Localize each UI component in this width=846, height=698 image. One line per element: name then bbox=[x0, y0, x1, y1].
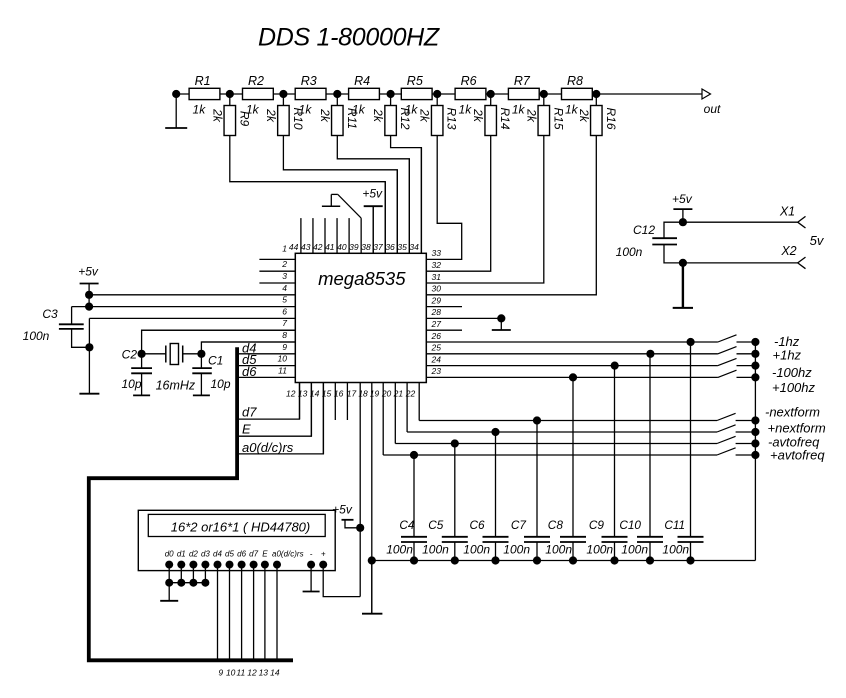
svg-text:6: 6 bbox=[282, 306, 287, 316]
ground LCD minus bbox=[303, 565, 320, 592]
svg-text:X1: X1 bbox=[779, 205, 795, 219]
pin 39 stub bbox=[349, 218, 361, 253]
svg-text:38: 38 bbox=[361, 242, 371, 252]
LCD pin E bbox=[261, 550, 269, 569]
junction -nextform cap drop bbox=[533, 416, 541, 424]
wire ladder rail bbox=[176, 93, 596, 95]
svg-text:33: 33 bbox=[432, 248, 442, 258]
switch -nextform bbox=[717, 405, 820, 425]
power +5v X connector bbox=[672, 192, 693, 222]
svg-text:+5v: +5v bbox=[78, 265, 99, 279]
svg-text:22: 22 bbox=[405, 389, 416, 399]
pin 18 stub bbox=[358, 383, 371, 614]
svg-text:12: 12 bbox=[286, 389, 296, 399]
pin 19 stub bbox=[370, 383, 383, 456]
svg-text:100n: 100n bbox=[616, 245, 643, 259]
svg-text:12: 12 bbox=[247, 668, 257, 678]
wire pin7 to C2 bbox=[142, 330, 296, 354]
svg-text:+avtofreq: +avtofreq bbox=[770, 448, 825, 463]
svg-text:+nextform: +nextform bbox=[768, 421, 826, 436]
junction X1 node bbox=[679, 218, 687, 226]
svg-text:2k: 2k bbox=[577, 108, 591, 123]
svg-text:9: 9 bbox=[282, 342, 287, 352]
svg-text:C12: C12 bbox=[633, 223, 655, 237]
resistor R12 2k bbox=[371, 94, 412, 136]
svg-text:18: 18 bbox=[358, 389, 368, 399]
svg-text:100n: 100n bbox=[621, 542, 648, 556]
pin 30 wire bbox=[432, 284, 442, 294]
switch -100hz bbox=[718, 358, 812, 380]
pin 3 wire bbox=[259, 271, 295, 283]
wire out line bbox=[596, 93, 702, 95]
pin 21 stub bbox=[393, 383, 407, 433]
svg-text:R15: R15 bbox=[551, 107, 565, 129]
svg-text:16mHz: 16mHz bbox=[156, 379, 196, 393]
ground pin28 bbox=[492, 318, 511, 330]
svg-text:26: 26 bbox=[431, 331, 442, 341]
pin 1 wire bbox=[259, 243, 295, 259]
svg-text:a0(d/c)rs: a0(d/c)rs bbox=[242, 440, 294, 455]
svg-text:C3: C3 bbox=[42, 307, 58, 321]
pin 5 wire bbox=[72, 295, 296, 307]
capacitor C12 100n bbox=[616, 222, 683, 263]
svg-text:35: 35 bbox=[397, 242, 407, 252]
wire pin8 to C1 bbox=[201, 342, 295, 354]
svg-text:29: 29 bbox=[431, 295, 442, 305]
junction ladder node 3 bbox=[333, 90, 341, 98]
pin 37 stub bbox=[373, 182, 385, 254]
pin 43 stub bbox=[301, 218, 313, 253]
capacitor C4 100n bbox=[386, 455, 427, 561]
svg-text:2k: 2k bbox=[418, 108, 432, 123]
junction C6 ground bus bbox=[491, 556, 499, 564]
resistor R7 1k bbox=[508, 74, 539, 117]
svg-text:d4: d4 bbox=[213, 550, 222, 559]
junction C3 ground node bbox=[85, 343, 93, 351]
pin 44 stub bbox=[289, 218, 301, 253]
LCD pin d5 bbox=[225, 550, 234, 569]
svg-text:d2: d2 bbox=[189, 550, 198, 559]
svg-text:1k: 1k bbox=[512, 103, 526, 117]
crystal Y1 16mHz bbox=[142, 344, 202, 393]
svg-text:100n: 100n bbox=[586, 542, 613, 556]
pin 23 wire bbox=[426, 366, 718, 377]
junction +1hz cap drop bbox=[646, 350, 654, 358]
svg-text:1k: 1k bbox=[565, 103, 579, 117]
junction ground bus left bbox=[368, 556, 376, 564]
svg-text:d6: d6 bbox=[237, 550, 246, 559]
pin 22 stub bbox=[405, 383, 419, 421]
svg-text:C11: C11 bbox=[664, 518, 685, 532]
resistor R13 2k bbox=[418, 94, 459, 136]
junction -1hz cap drop bbox=[687, 338, 695, 346]
junction node C2 bbox=[122, 348, 146, 362]
junction C4 ground bus bbox=[410, 556, 418, 564]
svg-text:+5v: +5v bbox=[672, 192, 693, 206]
LCD pin d7 bbox=[249, 550, 258, 569]
LCD module HD44780 box bbox=[138, 510, 335, 570]
wire R11 to pin35 bbox=[337, 136, 409, 254]
svg-text:31: 31 bbox=[432, 272, 442, 282]
wire X2 bbox=[683, 244, 806, 269]
svg-text:a0(d/c)rs: a0(d/c)rs bbox=[272, 550, 304, 559]
title text DDS 1-80000HZ bbox=[258, 24, 440, 52]
pin 10 wire bbox=[237, 354, 295, 366]
svg-text:11: 11 bbox=[236, 668, 245, 678]
pin 2 wire bbox=[259, 259, 295, 271]
resistor R15 2k bbox=[524, 94, 565, 136]
svg-text:E: E bbox=[262, 550, 268, 559]
LCD pin - bbox=[307, 550, 315, 569]
svg-text:100n: 100n bbox=[386, 542, 413, 556]
wire R14 to pin32 bbox=[426, 136, 490, 272]
power +5v LCD bbox=[332, 503, 360, 528]
svg-text:100n: 100n bbox=[545, 542, 572, 556]
junction ladder node 7 bbox=[540, 90, 548, 98]
svg-text:39: 39 bbox=[349, 242, 359, 252]
pin 4 wire bbox=[89, 283, 295, 295]
svg-text:32: 32 bbox=[432, 260, 442, 270]
wire E pin13 bbox=[237, 383, 311, 437]
junction ladder node 4 bbox=[387, 90, 395, 98]
svg-text:100n: 100n bbox=[503, 542, 530, 556]
svg-text:C10: C10 bbox=[619, 518, 641, 532]
wire R12 to pin34 bbox=[391, 136, 422, 254]
svg-text:d5: d5 bbox=[225, 550, 234, 559]
svg-text:R4: R4 bbox=[354, 74, 370, 88]
svg-text:19: 19 bbox=[370, 389, 380, 399]
wire X1 bbox=[683, 205, 806, 229]
wire thick LCD bus bbox=[89, 347, 293, 660]
resistor R9 2k bbox=[210, 94, 251, 136]
svg-text:-nextform: -nextform bbox=[765, 405, 820, 420]
pin 32 wire bbox=[432, 260, 442, 270]
svg-text:1k: 1k bbox=[193, 103, 207, 117]
svg-text:20: 20 bbox=[381, 389, 392, 399]
ground pin6 bbox=[79, 318, 99, 393]
svg-text:5v: 5v bbox=[810, 233, 825, 248]
svg-text:30: 30 bbox=[432, 284, 442, 294]
svg-text:10: 10 bbox=[278, 354, 288, 364]
junction ladder node 0 bbox=[172, 90, 180, 98]
wire pin21 +nextform bbox=[407, 431, 717, 433]
ground X2 bbox=[673, 263, 693, 308]
capacitor C7 100n bbox=[503, 421, 550, 561]
svg-text:C6: C6 bbox=[470, 518, 486, 532]
wire R9 to pin37 bbox=[230, 136, 385, 254]
wire LCD a0(d/c)rs to bus bbox=[270, 565, 280, 678]
svg-text:R13: R13 bbox=[445, 107, 459, 129]
wire a0(d/c)rs pin14 bbox=[237, 383, 323, 456]
LCD pin d6 bbox=[237, 550, 246, 569]
resistor R2 1k bbox=[243, 74, 274, 117]
svg-text:100n: 100n bbox=[23, 329, 50, 343]
svg-text:R1: R1 bbox=[195, 74, 211, 88]
wire pin19 +avtofreq bbox=[383, 454, 717, 456]
svg-text:X2: X2 bbox=[780, 244, 796, 258]
resistor R11 2k bbox=[318, 94, 359, 136]
switch -1hz bbox=[718, 334, 800, 349]
junction ladder node 5 bbox=[433, 90, 441, 98]
svg-text:C2: C2 bbox=[122, 348, 138, 362]
pin 15 stub bbox=[322, 383, 335, 421]
svg-text:16: 16 bbox=[334, 389, 344, 399]
svg-text:R11: R11 bbox=[345, 108, 359, 129]
svg-text:d0: d0 bbox=[165, 550, 174, 559]
svg-text:d3: d3 bbox=[201, 550, 210, 559]
node d5 label bbox=[242, 352, 257, 367]
junction pin4 +5v bbox=[85, 291, 93, 299]
junction C11 ground bus bbox=[686, 556, 694, 564]
wire LCD E to bus bbox=[259, 565, 269, 678]
svg-text:44: 44 bbox=[289, 242, 299, 252]
svg-text:d1: d1 bbox=[177, 550, 186, 559]
svg-text:d7: d7 bbox=[242, 405, 257, 420]
LCD pin d3 bbox=[201, 550, 210, 569]
svg-text:C1: C1 bbox=[208, 354, 223, 368]
svg-text:16*2 or16*1 ( HD44780): 16*2 or16*1 ( HD44780) bbox=[171, 520, 310, 535]
junction +avtofreq cap drop bbox=[410, 451, 418, 459]
svg-text:9: 9 bbox=[218, 668, 223, 678]
svg-text:C4: C4 bbox=[399, 518, 415, 532]
junction +nextform cap drop bbox=[491, 428, 499, 436]
svg-text:C5: C5 bbox=[428, 518, 444, 532]
svg-text:100n: 100n bbox=[662, 542, 689, 556]
junction C10 ground bus bbox=[646, 556, 654, 564]
pin 34 stub bbox=[409, 148, 421, 254]
node 5v label bbox=[810, 233, 825, 248]
switch +100hz bbox=[718, 370, 816, 395]
svg-text:100n: 100n bbox=[422, 542, 449, 556]
svg-text:2k: 2k bbox=[371, 108, 385, 123]
resistor R1 1k bbox=[189, 74, 220, 117]
svg-text:3: 3 bbox=[282, 271, 287, 281]
pin 20 stub bbox=[381, 383, 395, 444]
capacitor C3 100n bbox=[23, 307, 90, 348]
svg-text:21: 21 bbox=[393, 389, 404, 399]
svg-text:28: 28 bbox=[431, 307, 442, 317]
pin 26 wire bbox=[426, 331, 718, 342]
pin 25 wire bbox=[426, 343, 718, 354]
wire LCD d5 to bus bbox=[226, 565, 236, 678]
capacitor C10 100n bbox=[619, 354, 663, 561]
junction C9 ground bus bbox=[610, 556, 618, 564]
pin 28 wire bbox=[426, 307, 501, 318]
wire switch common bus bbox=[754, 342, 756, 561]
LCD pin d0 bbox=[165, 550, 174, 569]
pin 6 wire bbox=[89, 306, 295, 318]
pin 31 wire bbox=[432, 272, 442, 282]
ground LCD d0-d3 bbox=[160, 583, 178, 601]
switch S1 reset to pin39 bbox=[322, 194, 361, 218]
svg-text:R3: R3 bbox=[301, 74, 317, 88]
svg-text:R16: R16 bbox=[604, 107, 618, 129]
svg-text:2k: 2k bbox=[471, 108, 485, 123]
svg-text:14: 14 bbox=[270, 668, 280, 678]
svg-text:E: E bbox=[242, 422, 251, 437]
pin 17 stub bbox=[347, 383, 360, 597]
svg-text:17: 17 bbox=[347, 389, 357, 399]
svg-text:37: 37 bbox=[373, 242, 383, 252]
pin 38 stub bbox=[361, 206, 373, 253]
wire LCD plus to pin17 bbox=[323, 565, 360, 597]
svg-text:100n: 100n bbox=[463, 542, 490, 556]
junction C8 ground bus bbox=[569, 556, 577, 564]
resistor R3 1k bbox=[295, 74, 326, 117]
pin 13 stub bbox=[298, 383, 311, 437]
svg-text:-100hz: -100hz bbox=[772, 365, 812, 380]
junction node C1 bbox=[197, 350, 223, 368]
switch -avtofreq bbox=[717, 435, 820, 450]
capacitor C5 100n bbox=[422, 444, 468, 561]
junction pin5 +5v bbox=[85, 303, 93, 311]
wire pin22 -nextform bbox=[419, 420, 717, 422]
junction +100hz cap drop bbox=[569, 373, 577, 381]
svg-text:10p: 10p bbox=[210, 377, 230, 391]
junction ladder node 6 bbox=[487, 90, 495, 98]
svg-text:C8: C8 bbox=[548, 518, 564, 532]
resistor R6 1k bbox=[455, 74, 486, 117]
svg-text:42: 42 bbox=[313, 242, 323, 252]
svg-text:10: 10 bbox=[226, 668, 236, 678]
svg-text:8: 8 bbox=[282, 330, 287, 340]
resistor R4 1k bbox=[349, 74, 380, 117]
svg-text:R7: R7 bbox=[514, 74, 531, 88]
svg-text:+5v: +5v bbox=[362, 187, 383, 201]
pin 7 wire bbox=[142, 318, 296, 330]
svg-text:41: 41 bbox=[325, 242, 335, 252]
wire capacitor ground bus bbox=[372, 560, 756, 562]
resistor R10 2k bbox=[264, 94, 305, 136]
svg-text:5: 5 bbox=[282, 295, 287, 305]
pin 29 wire bbox=[426, 295, 462, 306]
LCD pin a0(d/c)rs bbox=[272, 550, 304, 569]
svg-text:+1hz: +1hz bbox=[773, 347, 802, 362]
svg-text:R9: R9 bbox=[237, 111, 251, 127]
svg-text:R8: R8 bbox=[567, 74, 583, 88]
svg-text:d6: d6 bbox=[242, 364, 257, 379]
LCD pin d1 bbox=[177, 550, 186, 569]
pin 24 wire bbox=[426, 354, 718, 365]
switch +avtofreq bbox=[717, 448, 825, 463]
wire LCD d7 to bus bbox=[247, 565, 257, 678]
power +5v pin38 bbox=[362, 187, 383, 254]
junction -100hz cap drop bbox=[611, 362, 619, 370]
svg-text:2k: 2k bbox=[264, 108, 278, 123]
svg-text:R5: R5 bbox=[407, 74, 423, 88]
pin 41 stub bbox=[325, 218, 337, 253]
junction ladder node 1 bbox=[226, 90, 234, 98]
pin 11 wire bbox=[237, 365, 295, 377]
svg-text:4: 4 bbox=[282, 283, 287, 293]
pin 8 wire bbox=[201, 330, 295, 342]
svg-text:24: 24 bbox=[431, 354, 442, 364]
pin 42 stub bbox=[313, 218, 325, 253]
svg-text:7: 7 bbox=[282, 318, 287, 328]
LCD pin + bbox=[319, 550, 327, 569]
junction pin28 node bbox=[497, 314, 505, 322]
ground pin18 main bbox=[362, 561, 382, 614]
resistor R8 1k bbox=[562, 74, 593, 117]
junction ladder node 8 bbox=[592, 90, 600, 98]
LCD pin d4 bbox=[213, 550, 222, 569]
out arrow bbox=[702, 89, 721, 116]
resistor R14 2k bbox=[471, 94, 512, 136]
IC U1 mega8535 bbox=[295, 253, 426, 382]
capacitor C6 100n bbox=[463, 432, 508, 561]
svg-text:13: 13 bbox=[259, 668, 269, 678]
svg-text:R6: R6 bbox=[461, 74, 477, 88]
wire pin20 -avtofreq bbox=[395, 443, 717, 445]
LCD pin d2 bbox=[189, 550, 198, 569]
capacitor C8 100n bbox=[545, 377, 586, 560]
svg-text:23: 23 bbox=[431, 366, 442, 376]
resistor R5 1k bbox=[401, 74, 432, 117]
junction X2 node bbox=[679, 259, 687, 267]
pin 9 wire bbox=[237, 342, 295, 354]
svg-text:1k: 1k bbox=[459, 103, 473, 117]
wire d7 pin12 bbox=[237, 383, 299, 420]
svg-text:25: 25 bbox=[431, 343, 442, 353]
capacitor C9 100n bbox=[586, 366, 627, 561]
pin 33 wire bbox=[432, 248, 442, 258]
svg-text:C7: C7 bbox=[511, 518, 527, 532]
svg-text:out: out bbox=[704, 102, 721, 116]
svg-text:34: 34 bbox=[409, 242, 419, 252]
svg-text:d7: d7 bbox=[249, 550, 258, 559]
switch +nextform bbox=[717, 421, 826, 437]
pin 16 stub bbox=[334, 383, 347, 421]
svg-text:R14: R14 bbox=[498, 107, 512, 129]
capacitor C2 10p bbox=[121, 354, 152, 396]
power +5v left bbox=[78, 265, 99, 307]
svg-text:C9: C9 bbox=[589, 518, 605, 532]
junction -avtofreq cap drop bbox=[451, 439, 459, 447]
node d6 label bbox=[242, 364, 257, 379]
junction C7 ground bus bbox=[533, 556, 541, 564]
node d4 label bbox=[242, 340, 256, 355]
svg-text:R10: R10 bbox=[291, 107, 305, 129]
pin 36 stub bbox=[385, 170, 397, 254]
svg-text:R2: R2 bbox=[248, 74, 264, 88]
svg-text:10p: 10p bbox=[121, 377, 141, 391]
wire LCD d6 to bus bbox=[236, 565, 245, 678]
wire LCD d0-d3 tie bbox=[165, 565, 209, 587]
svg-text:2k: 2k bbox=[210, 108, 224, 123]
svg-text:36: 36 bbox=[385, 242, 395, 252]
junction pin17 +5v bbox=[356, 524, 364, 532]
svg-text:DDS 1-80000HZ: DDS 1-80000HZ bbox=[258, 24, 440, 52]
capacitor C11 100n bbox=[662, 342, 703, 561]
pin 27 wire bbox=[426, 319, 462, 330]
svg-text:27: 27 bbox=[431, 319, 442, 329]
pin 12 stub bbox=[286, 383, 299, 420]
svg-text:+: + bbox=[321, 550, 326, 559]
pin 40 stub bbox=[337, 218, 349, 253]
svg-text:mega8535: mega8535 bbox=[318, 268, 406, 289]
junction ladder node 2 bbox=[279, 90, 287, 98]
pin 14 stub bbox=[310, 383, 323, 454]
junction C5 ground bus bbox=[451, 556, 459, 564]
svg-text:2k: 2k bbox=[318, 108, 332, 123]
svg-text:43: 43 bbox=[301, 242, 311, 252]
switch +1hz bbox=[718, 347, 802, 363]
svg-text:2k: 2k bbox=[524, 108, 538, 123]
ground ladder left bbox=[165, 94, 187, 128]
wire R15 to pin31 bbox=[426, 136, 544, 284]
svg-text:-: - bbox=[310, 550, 313, 559]
wire R16 to pin30 bbox=[426, 136, 596, 295]
